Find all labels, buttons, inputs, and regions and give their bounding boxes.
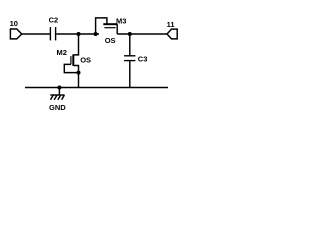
M3 gate bar (104, 27, 115, 29)
M2 gate bar (70, 56, 72, 64)
svg-text:11: 11 (167, 20, 175, 29)
M2 gate loop to source (64, 64, 78, 72)
ground hatch strokes (51, 95, 54, 100)
junction: node A / M2 drain (77, 32, 81, 36)
svg-text:OS: OS (80, 55, 91, 64)
svg-text:C3: C3 (138, 54, 148, 63)
transistor M3 (OS) (96, 18, 118, 34)
M3 left terminal lead (96, 18, 107, 34)
svg-text:10: 10 (10, 19, 18, 28)
junction: ground stem (57, 86, 61, 90)
svg-text:M2: M2 (57, 48, 67, 57)
port pin 10 (10, 29, 21, 39)
ground symbol (50, 88, 64, 100)
svg-text:GND: GND (49, 103, 66, 112)
capacitor C2 (50, 27, 55, 40)
M2 channel bar (72, 54, 74, 65)
wire: C2 to node A (top rail segment) (56, 33, 99, 35)
M2 source lead (73, 66, 78, 88)
wire: node B down to C3 (129, 34, 131, 55)
ground stem (58, 88, 60, 96)
junction: M3 left terminal (94, 32, 98, 36)
capacitor C3 (124, 56, 135, 61)
transistor M2 (OS) (64, 34, 78, 88)
port pin 11 (167, 29, 177, 39)
M3 channel bar (103, 23, 117, 25)
junction: M2 gate-source tie (77, 71, 81, 75)
wire: pin 10 to C2 left plate (22, 33, 50, 35)
wire: M3 to pin 11 (top rail right segment) (117, 33, 167, 35)
svg-text:OS: OS (105, 36, 116, 45)
junction: node B / C3 top (128, 32, 132, 36)
svg-text:M3: M3 (116, 17, 126, 26)
M2 drain lead (73, 34, 78, 55)
ground bar (50, 94, 64, 96)
svg-text:C2: C2 (49, 16, 59, 25)
ground rail wire (25, 87, 168, 89)
wire: C3 bottom to ground rail (129, 61, 131, 87)
M3 right terminal lead (116, 24, 118, 34)
